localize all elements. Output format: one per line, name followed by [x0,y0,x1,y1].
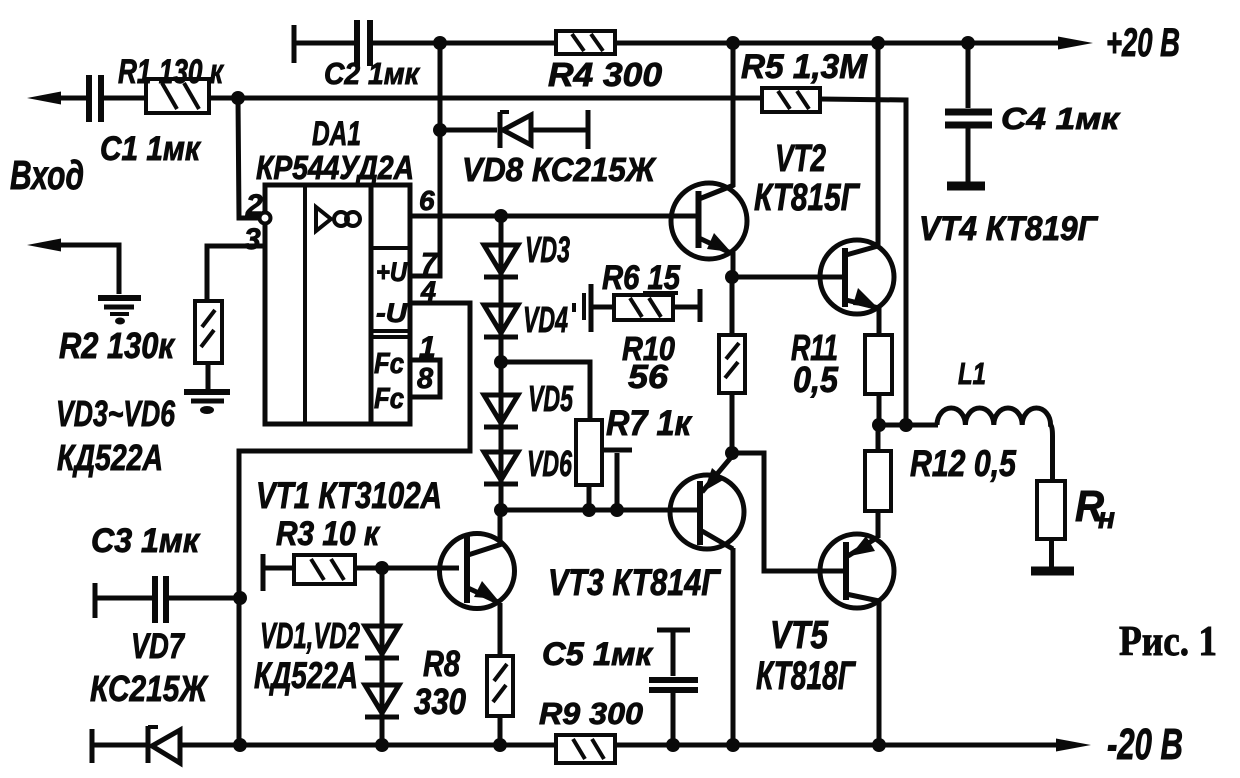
wire ground arm [58,245,119,294]
transistor VT1 КТ3102А [256,475,515,609]
wire output node to L1 [879,423,938,428]
capacitor C1 [89,75,202,168]
op-amp DA1 КР544УД2А [256,115,414,424]
wire R8 to -20V rail [498,716,503,745]
wire R7 branch [501,362,590,420]
svg-text:C1 1мк: C1 1мк [100,130,202,168]
node VD2 on rail [375,738,389,752]
diode VD1 [365,626,399,658]
svg-text:8: 8 [417,363,434,395]
wire pin3 to R2 [207,246,264,301]
node VT4 collector on +20V rail [871,36,885,50]
svg-text:R1 130 к: R1 130 к [118,53,224,91]
wire R3 to VT1 base [355,566,459,571]
transistor VT5 КТ818Г [756,534,894,698]
node C4 on +20V rail [961,36,975,50]
diode VD5 [484,378,574,427]
svg-text:330: 330 [414,681,466,722]
svg-text:R4 300: R4 300 [548,56,663,93]
wire R7 to chain bottom [587,485,592,510]
resistor R3 [263,515,381,591]
svg-text:VT3 КТ814Г: VT3 КТ814Г [548,562,722,603]
svg-text:КД522А: КД522А [57,437,163,478]
wire pin4 -U down to negative rail [239,303,470,745]
resistor R7 [576,404,693,485]
svg-text:Fc: Fc [374,383,404,415]
ground G1 [98,298,141,325]
svg-text:C2 1мк: C2 1мк [324,56,420,91]
node -U line on rail [233,738,247,752]
svg-text:R5 1,3М: R5 1,3М [741,48,868,86]
input arrow terminal [27,92,61,105]
svg-text:3: 3 [244,223,261,256]
wire R10 to VT3 emitter node [730,393,735,453]
svg-text:VT5: VT5 [770,614,829,657]
diode VD4 [484,293,584,340]
svg-text:C4 1мк: C4 1мк [1001,101,1120,136]
wire VT4 emitter to R11 [877,306,882,335]
node VT3 collector on rail [726,738,740,752]
+20V arrow terminal [1058,37,1093,50]
diode VD2 [365,685,399,717]
capacitor C2 [294,20,420,91]
node VT2 emitter / VT4 base [725,270,739,284]
node R8 on rail [493,738,507,752]
svg-text:56: 56 [628,358,669,395]
svg-text:КТ815Г: КТ815Г [754,177,860,219]
capacitor C3 [91,522,240,623]
node stub junction [610,503,624,517]
wire VT1 collector to chain bottom [498,510,503,543]
svg-text:C3 1мк: C3 1мк [91,522,201,560]
wire VT3 emitter node to VT5 base [732,453,844,571]
wire node to R10 [730,277,735,335]
node output junction R11/R12 [872,418,886,432]
wire node to VD1/VD2 chain [380,568,385,745]
resistor R9 [539,696,643,763]
node VT2 collector on +20V rail [726,36,740,50]
svg-text:VD6: VD6 [527,443,573,484]
node VD8 anode junction [433,123,447,137]
zener VD7 КС215Ж on rail [148,726,180,763]
svg-text:R9 300: R9 300 [539,696,643,731]
-20V arrow terminal [1056,739,1091,752]
node C3 / -U line junction [233,591,247,605]
resistor Rн load [1037,481,1115,539]
capacitor C4 [945,43,1120,186]
svg-text:+20 B: +20 B [1106,21,1180,65]
diode VD6 [484,443,573,484]
resistor R10 [719,335,745,393]
wire VT1 emitter to R8 [498,603,503,656]
wire VT2 emitter to node [731,252,736,280]
ground bar load common [1031,567,1074,576]
svg-text:КД522А: КД522А [254,655,358,696]
wire diode chain vertical [499,216,504,510]
pin 2 inverting input circle [260,213,271,224]
wire VT4 base [732,275,843,280]
wire VT3 collector to -20V [731,548,736,745]
wire VT5 collector to -20V [877,600,882,745]
inductor L1 [937,356,1053,481]
diode VD3 [484,229,570,277]
resistor R6 [590,259,700,332]
wire input line y=98 [56,98,906,425]
transistor VT2 КТ815Г [671,138,860,259]
svg-text:КТ818Г: КТ818Г [756,654,857,698]
wire pin2 branch from R1 node [238,98,259,218]
resistor R8 [414,643,513,722]
svg-text:КР544УД2А: КР544УД2А [256,149,414,186]
node R1/R5/pin2 junction [231,91,245,105]
resistor R12 [865,425,1017,538]
wire pin1-pin8 correction jumper [410,360,440,397]
label R10 value [622,330,676,395]
node VD4/VD5 junction to R7 [494,355,508,369]
wire pin6 output to VT2 base [410,214,697,219]
svg-text:C5 1мк: C5 1мк [542,636,654,672]
node VT5 collector on rail [872,738,886,752]
zener VD8 КС215Ж [440,110,657,188]
node output junction R5 feedback [899,418,913,432]
svg-text:-U: -U [376,298,409,328]
svg-text:VD7: VD7 [131,627,185,666]
node pin6/diode chain junction [494,209,508,223]
node C5 on rail [666,738,680,752]
svg-text:КС215Ж: КС215Ж [90,668,208,709]
svg-text:Вход: Вход [10,152,84,198]
wire chain bottom to VT3 base [501,508,698,513]
svg-text:VD3: VD3 [525,229,570,270]
wire VT2 collector to +20V [731,43,736,187]
svg-text:R8: R8 [423,643,460,684]
svg-text:VD8 КС215Ж: VD8 КС215Ж [462,151,657,188]
capacitor C5 [542,630,698,745]
svg-text:L1: L1 [958,356,986,391]
svg-text:Рис. 1: Рис. 1 [1119,619,1217,665]
svg-text:R2 130к: R2 130к [59,325,175,366]
svg-text:VT4 КТ819Г: VT4 КТ819Г [919,210,1099,248]
svg-text:+U: +U [376,257,408,287]
svg-text:0,5: 0,5 [793,359,839,400]
svg-text:VD4: VD4 [523,299,568,340]
resistor R5 [741,48,868,112]
resistor R2 [59,301,222,366]
svg-text:DA1: DA1 [312,115,361,153]
wire R11 to output node [877,394,882,425]
ground arm arrow terminal [27,239,61,252]
svg-text:Fc: Fc [374,348,404,380]
svg-text:VT1 КТ3102А: VT1 КТ3102А [256,475,442,516]
transistor VT4 КТ819Г [820,210,1099,314]
wire top supply rail +20V [294,41,1062,46]
svg-text:VD5: VD5 [528,378,574,419]
svg-text:R3 10 к: R3 10 к [276,515,381,553]
node VT3 emitter / R10 [725,446,739,460]
wire R2 to ground [206,363,211,389]
svg-text:R12 0,5: R12 0,5 [910,443,1017,484]
svg-text:-20 B: -20 B [1107,720,1183,769]
wire Rн to common [1049,539,1054,568]
resistor R11 [791,327,892,400]
svg-text:VD1,VD2: VD1,VD2 [260,615,360,656]
transistor VT3 КТ814Г [548,455,744,603]
node chain bottom [494,503,508,517]
resistor R1 [118,53,224,113]
stub terminal near R7 [601,450,632,510]
ground G2 [184,392,230,414]
svg-text:н: н [1098,502,1115,535]
wire pin7 +U to supply branch [410,43,440,276]
rail left terminal bar [90,729,95,763]
node C2/R4/+U junction [433,36,447,50]
svg-text:R7 1к: R7 1к [606,404,693,443]
svg-text:VD3~VD6: VD3~VD6 [56,393,176,434]
wire bottom supply rail -20V [92,743,1060,748]
svg-text:6: 6 [419,185,435,216]
svg-text:2: 2 [245,189,263,222]
resistor R4 [548,31,663,93]
node R3/VD1 junction [375,561,389,575]
svg-text:VT2: VT2 [775,138,826,180]
wire VT4 collector to +20V [876,43,881,247]
node R7 bottom [582,503,596,517]
